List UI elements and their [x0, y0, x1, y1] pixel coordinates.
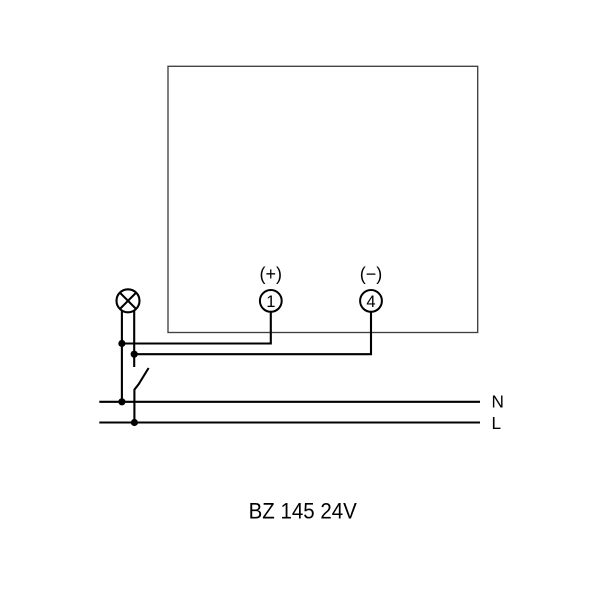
svg-text:N: N — [492, 391, 504, 411]
junction: lamp left leg / N line — [118, 398, 125, 405]
wire: L line — [99, 421, 480, 423]
svg-text:(−): (−) — [360, 264, 383, 284]
svg-text:4: 4 — [366, 293, 375, 311]
junction: terminal1 wire / lamp left leg — [118, 340, 125, 347]
wire: terminal 1 to lamp left leg — [122, 311, 271, 343]
switch S1 blade (open) — [135, 368, 149, 390]
svg-text:L: L — [492, 413, 502, 433]
svg-text:BZ 145 24V: BZ 145 24V — [249, 499, 358, 524]
terminal 4 — [360, 290, 382, 312]
svg-text:(+): (+) — [260, 264, 283, 284]
junction: terminal4 wire / switch wire — [131, 351, 138, 358]
lamp E1 (circle with cross) — [117, 289, 140, 312]
wire: lamp right leg down to switch contact — [133, 310, 135, 367]
device box (controller outline) — [168, 66, 478, 332]
svg-text:1: 1 — [266, 293, 275, 311]
wire: N line — [99, 401, 480, 403]
wire: lamp left leg down to N — [121, 310, 123, 402]
wire: switch bottom down to L — [133, 389, 135, 423]
terminal 1 — [260, 290, 282, 312]
junction: switch wire / L line — [131, 419, 138, 426]
wire: terminal 4 to switch wire — [134, 311, 371, 354]
